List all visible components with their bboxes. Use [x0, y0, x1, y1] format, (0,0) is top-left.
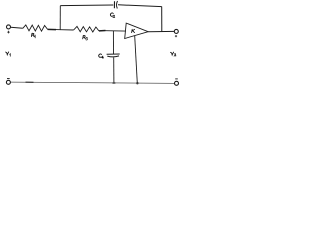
- minus mark right: [175, 78, 178, 80]
- junction dot amp rail: [136, 82, 138, 84]
- wire R3 to node B thick: [99, 30, 106, 32]
- capacitor C4: [107, 54, 120, 57]
- label R1: [31, 33, 35, 38]
- label v1: [6, 52, 11, 56]
- wire output: [148, 30, 174, 32]
- bottom-left terminal minus: [6, 80, 10, 84]
- wire top rail right: [118, 5, 162, 7]
- wire C4 branch lower: [113, 57, 115, 82]
- wire node A up to top rail: [59, 6, 61, 30]
- wire input stub: [11, 27, 23, 28]
- plus mark output: [175, 35, 177, 37]
- label R3: [83, 35, 88, 40]
- wire node B to op-amp: [106, 30, 126, 32]
- resistor R3: [74, 26, 99, 32]
- bottom rail dark dash: [26, 81, 34, 83]
- wire top rail left: [60, 4, 113, 7]
- wire amp ground: [135, 36, 138, 83]
- capacitor C2: [114, 1, 117, 9]
- wire feedback vertical: [161, 7, 163, 32]
- wire C4 branch upper: [112, 31, 114, 54]
- output terminal v2 plus: [174, 29, 178, 33]
- plus mark input: [7, 31, 10, 34]
- input terminal v1 plus: [7, 25, 11, 29]
- resistor R1: [23, 25, 48, 31]
- junction dot C4 rail: [112, 82, 116, 84]
- wire R1 to node: [48, 28, 56, 30]
- minus mark left: [7, 78, 10, 80]
- op-amp K: [125, 23, 149, 38]
- wire node A to R3: [60, 29, 73, 31]
- label C2: [110, 13, 114, 17]
- bottom rail: [11, 82, 175, 83]
- label v2: [171, 52, 177, 56]
- label C4: [99, 54, 104, 59]
- label K: [132, 29, 135, 32]
- bottom-right terminal minus: [175, 81, 179, 85]
